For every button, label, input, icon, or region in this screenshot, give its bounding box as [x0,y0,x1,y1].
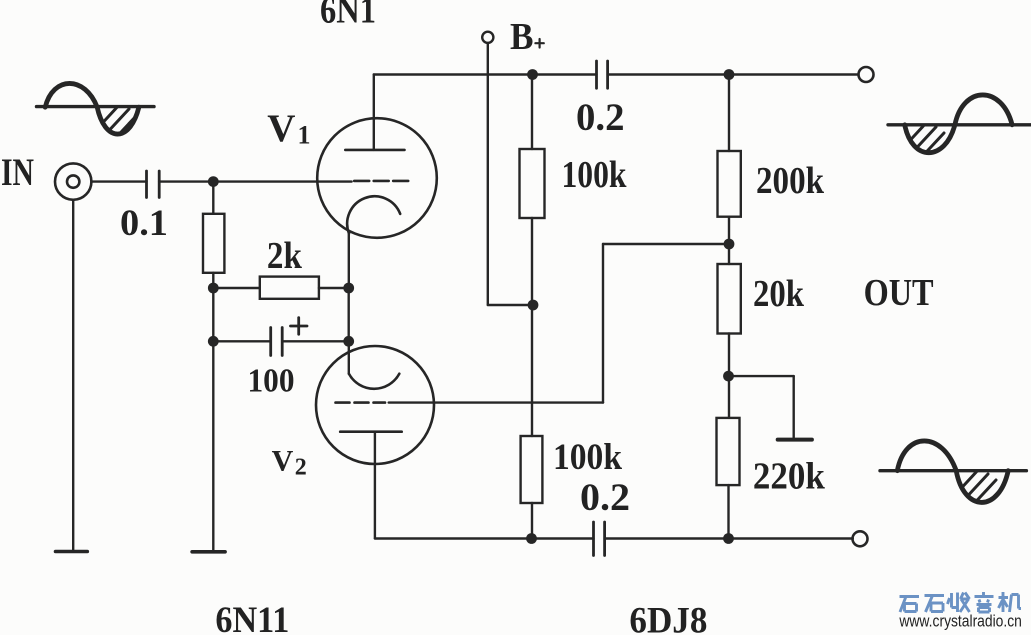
node top of R5 [724,69,735,80]
B+ terminal [482,32,493,43]
resistor R1 (grid leak) [203,182,224,288]
V2 cathode [349,374,399,389]
triode V2 envelope [316,346,434,464]
node B [208,283,219,294]
input sine symbol [37,83,155,155]
resistor R4 100k lower [521,436,543,503]
node bottom of R7 [723,533,734,544]
wire node D to node E [348,288,350,341]
svg-text:6DJ8: 6DJ8 [629,601,707,636]
resistor R6 20k [718,264,741,418]
node B+ junction [528,300,539,311]
svg-text:B: B [510,16,534,58]
node top of R3 [527,69,538,80]
wire R2 to node D [319,287,349,289]
top wire to output [608,73,859,75]
node R5/R6 [724,239,735,250]
V2 plate [340,430,402,433]
svg-text:6N1: 6N1 [320,0,376,31]
node R6/R7 [723,371,734,382]
B+ wire down [487,43,489,305]
bottom wire to output [605,537,853,539]
wire node B to node C [212,288,214,341]
wire C2 to node E [282,340,349,342]
svg-text:220k: 220k [753,456,826,498]
B+ wire to node [488,304,532,306]
ground tap wire [729,375,794,377]
svg-text:0.1: 0.1 [120,203,168,244]
bottom wire (V2 plate rail) [375,537,594,539]
svg-text:100k: 100k [553,437,622,478]
capacitor C1 0.1 [147,171,160,198]
top wire (V1 plate rail) [374,73,597,75]
V1 grid (dashed) [354,180,409,183]
node C [208,336,219,347]
V2 grid wire [389,401,603,403]
V1 cathode lead [348,234,350,289]
svg-text:V: V [272,445,294,478]
node D (V1 cathode) [343,283,354,294]
resistor R3 100k upper [520,75,545,437]
output terminal (top) [859,67,874,82]
input connector J1 [55,163,91,199]
svg-text:2k: 2k [267,235,303,277]
node grid V1 [208,176,219,187]
plus sign of C2 [291,318,308,335]
triode V1 envelope [317,118,437,238]
resistor R5 200k [718,75,741,265]
svg-text:OUT: OUT [864,272,934,314]
capacitor C3 0.2 (top) [597,61,608,88]
V2 plate lead [374,432,376,539]
capacitor C4 0.2 (bottom) [594,522,605,556]
svg-text:2: 2 [295,455,307,481]
svg-text:6N11: 6N11 [215,600,289,635]
wire C1 to V1 grid [159,180,351,182]
wire node C to ground [212,341,214,551]
svg-text:0.2: 0.2 [576,96,625,139]
svg-text:1: 1 [298,121,311,150]
feedback wire to node [603,243,729,245]
svg-text:www.crystalradio.cn: www.crystalradio.cn [899,613,1022,631]
resistor R2 2k [260,277,319,299]
V2 grid (dashed) [336,401,386,404]
output sine (bottom, in phase) [880,441,1026,520]
svg-text:20k: 20k [753,273,805,315]
wire connector down [72,200,74,551]
watermark 矿石收音机 (drawn strokes) [900,592,1022,612]
resistor R7 220k [717,418,740,539]
V1 cathode [347,196,400,233]
output sine (top, inverted) [888,95,1031,173]
ground (input) [56,550,88,554]
V1 plate [345,149,404,152]
label V1 [267,107,310,150]
wire connector to C1 [91,180,146,182]
feedback wire up [602,244,604,403]
V1 plate lead [373,75,375,150]
V2 cathode lead [348,341,350,373]
ground (node C) [192,550,225,554]
node E [343,336,354,347]
capacitor C2 100 (electrolytic) [271,328,283,356]
svg-text:IN: IN [1,151,34,194]
svg-text:100: 100 [248,363,295,400]
output terminal (bottom) [853,531,868,546]
svg-text:V: V [267,107,295,150]
wire node B to R2 [213,287,259,289]
node bottom of R4 [526,533,537,544]
svg-text:0.2: 0.2 [580,476,630,519]
label V2 [272,445,307,481]
svg-text:200k: 200k [756,160,825,202]
wire node C to C2 [213,340,270,342]
ground (tap) [778,438,812,442]
svg-text:100k: 100k [562,154,628,196]
